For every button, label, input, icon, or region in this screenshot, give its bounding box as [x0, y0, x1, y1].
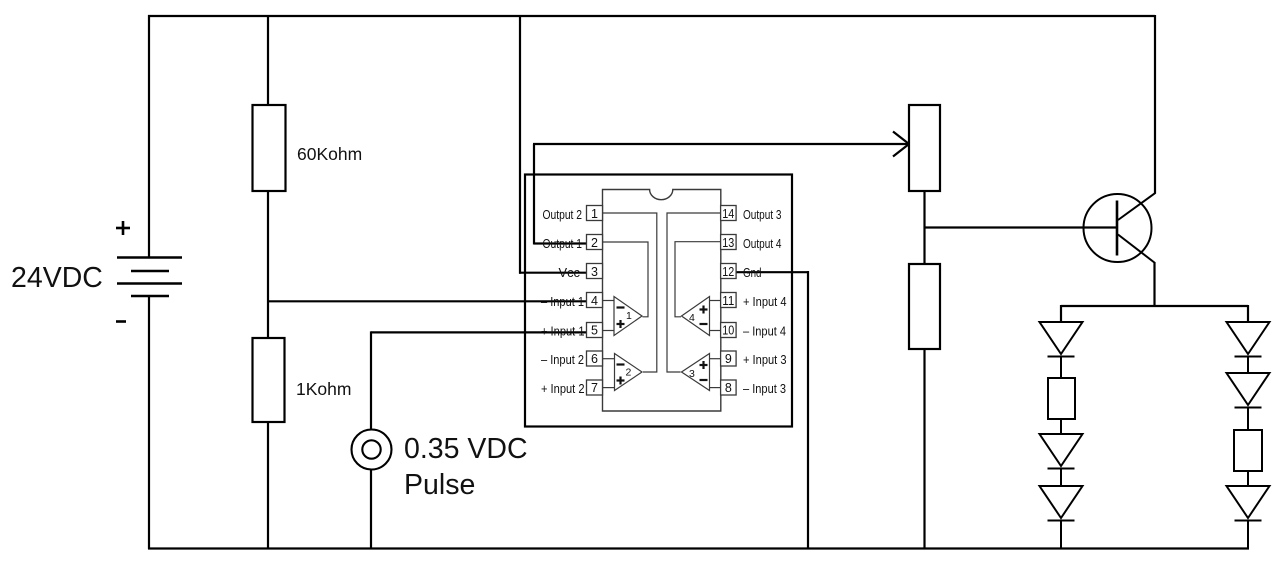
wire pin 5 horizontal	[371, 331, 587, 333]
resistor R6	[1234, 430, 1262, 471]
wire R2 bottom lead	[267, 422, 269, 549]
wire left rail top (battery positive lead)	[148, 15, 150, 258]
svg-text:Output 3: Output 3	[743, 207, 782, 222]
wire R6 to D6	[1247, 471, 1249, 486]
pin 11 box	[721, 293, 737, 308]
svg-text:6: 6	[591, 352, 598, 366]
op-amp U1B (2)	[615, 354, 643, 391]
svg-text:24VDC: 24VDC	[11, 262, 103, 294]
resistor R5	[1048, 378, 1075, 419]
resistor R1 60Kohm	[253, 105, 286, 191]
wire pin1 to op2 output	[603, 213, 657, 372]
wire pin9 to op3 plus	[710, 358, 721, 360]
pin numbers right	[722, 207, 734, 395]
svg-text:Output 4: Output 4	[743, 236, 782, 251]
pin 9 box	[721, 351, 737, 366]
svg-text:0.35 VDC: 0.35 VDC	[404, 433, 528, 465]
svg-text:Pulse: Pulse	[404, 469, 475, 501]
Q1 emitter diagonal	[1118, 235, 1155, 264]
pin 8 box	[721, 380, 737, 395]
svg-text:+ Input 2: + Input 2	[541, 381, 585, 396]
pin 6 box	[587, 351, 603, 366]
wire pin6 to op2 minus	[603, 358, 616, 360]
svg-text:4: 4	[591, 294, 598, 308]
svg-text:Output 1: Output 1	[543, 236, 583, 251]
wire R5 to D2	[1060, 419, 1062, 434]
wire potentiometer to base node	[923, 191, 925, 264]
pin 4 box	[587, 293, 603, 308]
pin 3 box	[587, 264, 603, 279]
svg-text:– Input 4: – Input 4	[743, 324, 786, 339]
svg-text:3: 3	[689, 368, 695, 380]
svg-text:Output 2: Output 2	[543, 207, 583, 222]
pin 5 box	[587, 323, 603, 338]
wire pin13 to op4 output	[675, 242, 721, 317]
svg-text:– Input 1: – Input 1	[541, 294, 584, 309]
internal wires	[603, 213, 721, 388]
pin boxes right (pins 14-8)	[721, 206, 737, 396]
svg-text:3: 3	[591, 265, 598, 279]
op1 minus sign	[617, 306, 625, 308]
svg-text:10: 10	[722, 324, 734, 338]
op4 plus sign	[700, 308, 708, 310]
wire Vcc branch vertical	[519, 15, 521, 274]
op-amp U1A (1)	[614, 297, 642, 336]
pin 12 box	[721, 264, 737, 279]
pin labels left	[541, 207, 585, 396]
op-amp signs	[617, 306, 708, 385]
wire 60Kohm top lead	[267, 15, 269, 105]
wire pin10 to op4 minus	[710, 330, 721, 332]
pulse source V2	[352, 430, 392, 470]
wire divider node to pin 4	[267, 300, 587, 302]
diode D2	[1040, 434, 1083, 486]
IC outer box	[525, 175, 792, 427]
op-amp U1C (3)	[682, 354, 710, 391]
wire Gnd vertical to bottom rail	[807, 271, 809, 549]
wire right string drop	[1247, 305, 1249, 322]
op2 minus sign	[617, 363, 625, 365]
wire left rail bottom (battery negative lead)	[148, 296, 150, 549]
pin 2 box	[587, 235, 603, 250]
svg-text:– Input 3: – Input 3	[743, 381, 786, 396]
op-amp U1 DIP body	[603, 190, 721, 412]
Q1 collector diagonal	[1118, 193, 1156, 220]
svg-text:+ Input 3: + Input 3	[743, 352, 787, 367]
svg-text:11: 11	[722, 294, 734, 308]
wire LED bus	[1061, 305, 1248, 307]
wire pin4 to op1 minus	[603, 300, 615, 302]
svg-text:2: 2	[591, 236, 598, 250]
svg-text:– Input 2: – Input 2	[541, 352, 584, 367]
arrowhead at potentiometer	[893, 132, 909, 157]
svg-text:9: 9	[725, 352, 732, 366]
svg-text:12: 12	[722, 265, 734, 279]
transistor Q1	[1084, 193, 1156, 263]
diode D3	[1040, 486, 1083, 549]
pin 10 box	[721, 323, 737, 338]
pin 7 box	[587, 380, 603, 395]
wire collector to top rail	[1154, 15, 1156, 194]
wire pin8 to op3 minus	[710, 387, 721, 389]
wire R4 to bottom rail	[923, 349, 925, 549]
pin labels right	[743, 207, 787, 396]
wire base node to transistor base	[924, 226, 1118, 228]
wire pin2 to op1 output	[603, 242, 649, 317]
wire pin5 to op1 plus	[603, 330, 615, 332]
op-amp numbers	[626, 310, 696, 380]
wire pin 5 down to pulse source	[370, 331, 372, 429]
wire emitter down	[1153, 262, 1155, 307]
op1 plus sign	[617, 323, 625, 325]
pin 14 box	[721, 206, 737, 221]
wire pin11 to op4 plus	[710, 300, 721, 302]
wire divider node R1-R2	[267, 191, 269, 338]
potentiometer R3	[909, 105, 940, 191]
wire pin 12 Gnd horizontal	[736, 271, 808, 273]
diode D6	[1227, 486, 1270, 549]
pin boxes left (pins 1-7)	[587, 206, 603, 396]
diode D1 (left string)	[1040, 322, 1083, 378]
svg-text:13: 13	[722, 236, 734, 250]
svg-text:7: 7	[591, 381, 598, 395]
resistor R2 1Kohm	[253, 338, 285, 422]
svg-text:+ Input 4: + Input 4	[743, 294, 787, 309]
svg-text:2: 2	[626, 367, 632, 379]
wire bottom rail	[148, 547, 1249, 549]
svg-text:60Kohm: 60Kohm	[297, 144, 362, 164]
svg-text:1: 1	[626, 310, 632, 322]
op2 plus sign	[617, 379, 625, 381]
op3 plus sign	[700, 364, 708, 366]
svg-text:+ Input 1: + Input 1	[541, 324, 585, 339]
svg-text:Gnd: Gnd	[743, 265, 762, 280]
wire pulse source to bottom rail	[370, 470, 372, 549]
resistor R4	[909, 264, 940, 349]
wire output1 to potentiometer	[533, 143, 908, 145]
svg-text:1Kohm: 1Kohm	[296, 379, 351, 399]
wire left string drop	[1060, 305, 1062, 322]
svg-text:Vcc: Vcc	[559, 265, 581, 280]
battery B1	[117, 258, 182, 297]
op-amp U1D (4)	[682, 297, 710, 336]
battery plus sign	[116, 221, 130, 235]
wire top rail	[148, 15, 1155, 17]
svg-text:4: 4	[689, 312, 695, 324]
pin 13 box	[721, 235, 737, 250]
pin numbers left	[591, 207, 598, 395]
wire pin 2 output1 horizontal	[534, 242, 587, 244]
diode D4 (right string)	[1227, 322, 1270, 373]
svg-text:8: 8	[725, 381, 732, 395]
wire Vcc branch horizontal to pin 3	[519, 272, 587, 274]
pin 1 box	[587, 206, 603, 221]
wire pin14 to op3 output	[667, 213, 721, 372]
svg-text:14: 14	[722, 207, 734, 221]
svg-text:1: 1	[591, 207, 598, 221]
wire pin7 to op2 plus	[603, 387, 616, 389]
op4 minus sign	[700, 323, 708, 325]
op3 minus sign	[700, 379, 708, 381]
battery minus sign	[116, 320, 126, 323]
svg-text:5: 5	[591, 324, 598, 338]
diode D5	[1227, 373, 1270, 430]
wire output1 vertical	[533, 144, 535, 245]
